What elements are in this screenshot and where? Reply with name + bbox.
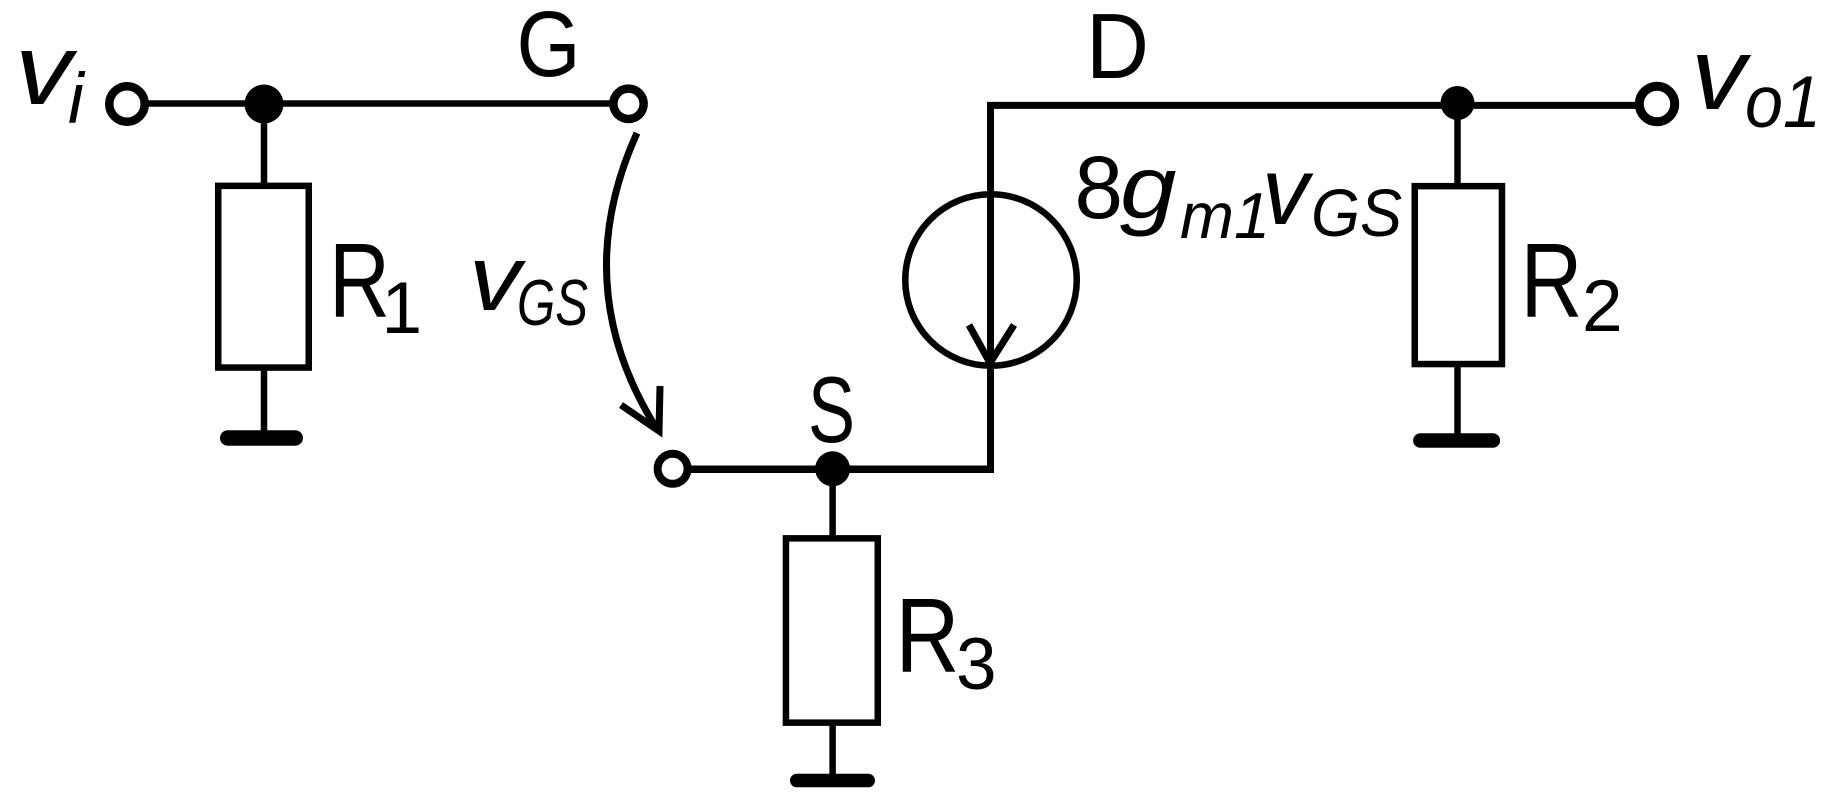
svg-text:o1: o1 xyxy=(1745,62,1821,143)
svg-text:GS: GS xyxy=(517,266,588,339)
resistor R1 xyxy=(218,186,309,368)
svg-text:3: 3 xyxy=(956,624,997,705)
label vo1 xyxy=(1691,17,1821,143)
resistor R3 xyxy=(786,538,878,722)
svg-text:R: R xyxy=(896,577,960,695)
label R3 xyxy=(896,577,997,705)
wire R1 to ground xyxy=(261,370,268,434)
label vi xyxy=(15,14,86,139)
node S junction xyxy=(815,451,850,486)
curved arrow vGS from G to S xyxy=(606,133,655,426)
svg-text:v: v xyxy=(1691,17,1751,131)
terminal G xyxy=(613,89,643,119)
wire D to R2 xyxy=(1454,103,1461,186)
current source circle xyxy=(905,194,1077,366)
svg-text:v: v xyxy=(1262,138,1314,245)
ground below R3 xyxy=(790,774,875,788)
label R1 xyxy=(329,222,422,349)
svg-text:D: D xyxy=(1086,0,1149,98)
terminal vo1 xyxy=(1639,86,1674,121)
wire R2 to ground xyxy=(1454,366,1461,436)
ground below R1 xyxy=(220,430,303,446)
wire D horizontal xyxy=(987,102,1637,109)
wire S node horizontal xyxy=(691,465,994,473)
label 8gm1vGS xyxy=(1075,137,1403,252)
svg-text:G: G xyxy=(517,0,581,96)
resistor R2 xyxy=(1415,186,1502,364)
svg-text:1: 1 xyxy=(382,268,423,349)
svg-text:i: i xyxy=(68,60,86,139)
svg-text:2: 2 xyxy=(1582,266,1623,347)
wire vi to G xyxy=(146,100,611,107)
arrowhead of vGS arrow xyxy=(621,386,660,431)
current source arrowhead xyxy=(969,325,1014,363)
svg-text:8: 8 xyxy=(1075,137,1124,237)
node D junction xyxy=(1441,86,1475,120)
wire R3 to ground xyxy=(829,724,836,777)
wire drain vertical through source xyxy=(987,102,994,473)
label R2 xyxy=(1521,222,1623,347)
wire junction to R1 xyxy=(261,104,268,186)
node vi junction xyxy=(245,85,284,124)
svg-text:GS: GS xyxy=(1311,176,1402,251)
terminal S xyxy=(658,454,688,484)
wire S to R3 xyxy=(829,469,836,540)
terminal vi xyxy=(109,86,145,122)
svg-text:g: g xyxy=(1120,137,1177,237)
svg-text:m1: m1 xyxy=(1180,179,1270,252)
svg-text:R: R xyxy=(1521,222,1583,340)
label vGS xyxy=(469,226,588,339)
ground below R2 xyxy=(1413,433,1500,448)
svg-text:S: S xyxy=(808,357,855,462)
